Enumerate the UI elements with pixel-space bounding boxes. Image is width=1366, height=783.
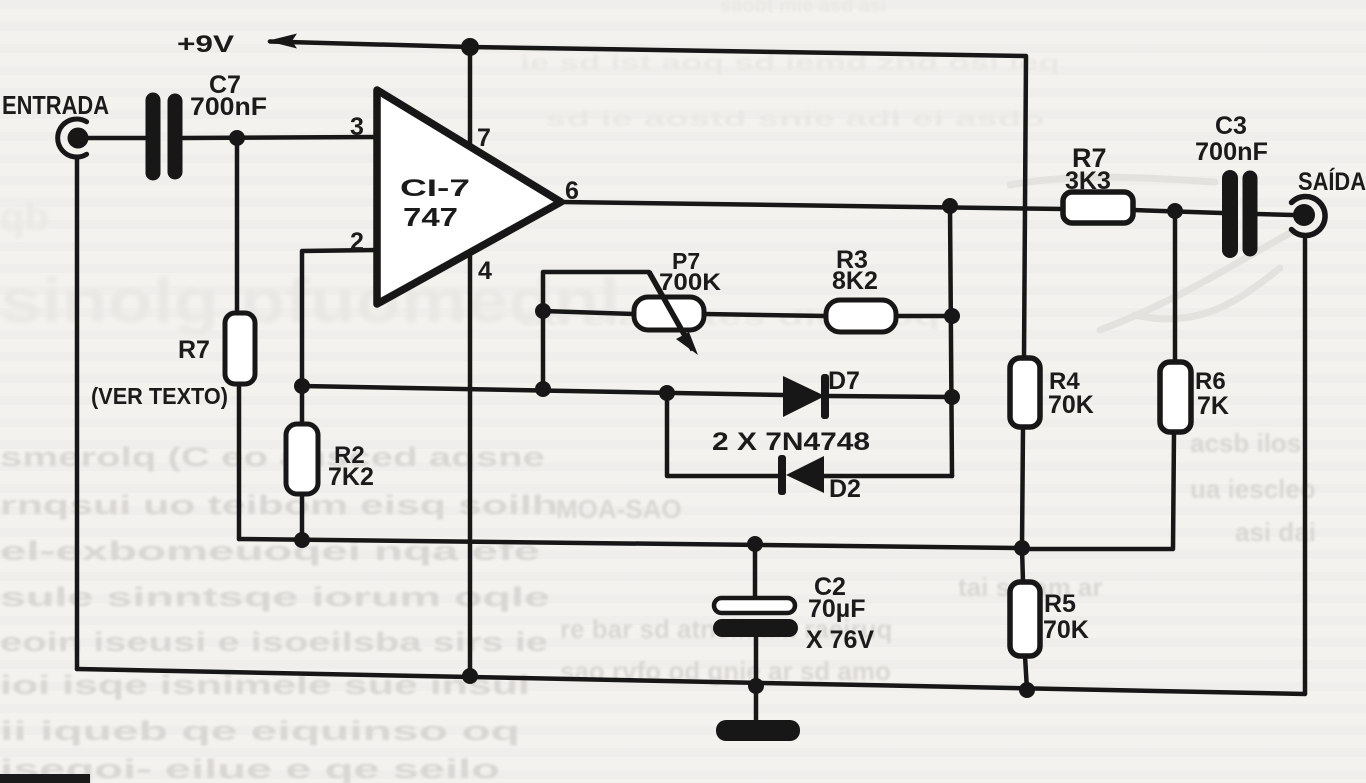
label R6 [1195,368,1226,395]
svg-text:smerolq (C eo ausced aqsne: smerolq (C eo ausced aqsne [0,442,545,472]
wire R1 top lead [235,138,240,313]
wire R5 bottom lead [1025,656,1027,690]
node: diode branch left junction [659,385,675,401]
ground symbol [716,720,800,741]
wire P1 left lead [543,311,634,314]
capacitor C2 top plate [714,598,795,613]
wire mid-rail node run [239,539,1022,548]
potentiometer P1 body [634,272,704,350]
svg-text:ii iqueb qe eiquinso oq: ii iqueb qe eiquinso oq [0,716,520,746]
node: pin7 rail junction [461,38,479,56]
resistor R5 body [1010,582,1040,656]
wire P1 to R3 [704,314,826,316]
svg-text:ua iescleo: ua iescleo [1190,474,1316,504]
svg-text:+9V: +9V [177,31,234,58]
label R4 value 10K [1048,391,1094,419]
label C3 value 100nF [1195,138,1268,166]
connector ENTRADA jack [58,119,89,157]
circuit artwork [77,42,1305,723]
node: C1/R1 junction [229,130,245,146]
node: P1 leg on feedback wire [535,381,551,397]
wire P1 left vertical [543,272,649,389]
label P1 value 100K [659,269,722,296]
wire R4 bottom lead [1022,427,1023,548]
svg-text:2: 2 [350,228,364,256]
label R1 [178,336,210,364]
svg-text:C3: C3 [1215,112,1247,140]
svg-text:700K: 700K [659,269,722,296]
resistor R1 body [225,313,255,384]
svg-text:70K: 70K [1043,616,1089,644]
label 747 [403,202,458,232]
svg-text:3K3: 3K3 [1065,167,1111,195]
svg-text:acsb ilos: acsb ilos [1190,428,1301,458]
wire R5 top lead [1022,548,1023,582]
wire R2 bottom lead [300,494,305,540]
wire ENTRADA down left side [75,158,80,669]
node: R4/R5/R6 mid-rail junction [1014,540,1030,556]
label (VER TEXTO) [91,383,228,409]
wire R3 right lead [896,314,952,319]
svg-text:2 X 7N4748: 2 X 7N4748 [712,428,870,456]
svg-text:700nF: 700nF [1195,138,1268,166]
label pin 4 [478,257,492,285]
black bar bottom-left corner (adjacent figure edge) [0,774,90,783]
wire R6 bottom lead to mid-rail [1022,432,1174,549]
node: R3 right junction [944,308,960,324]
label pin 7 [477,124,491,152]
node: R5 ground junction [1019,682,1035,698]
label C2 [814,573,846,601]
svg-text:CI-7: CI-7 [400,175,470,202]
svg-text:sd ie aostd snie adl ei asdo: sd ie aostd snie adl ei asdo [545,108,1045,131]
label D2 [829,475,861,503]
node: R7/C3/R6 junction [1167,203,1183,219]
label C1 [209,71,241,99]
node: C2 ground junction [748,678,764,694]
wire D2 right lead [824,474,952,479]
label pin 2 [350,228,364,256]
capacitor C1 plates [153,100,175,173]
wire C1 to pin3 [183,137,377,138]
node: output junction on pin6 wire [942,198,958,214]
label ENTRADA [2,90,109,120]
wire feedback run to D1 anode [302,386,783,395]
resistor R3 body [826,300,896,332]
svg-text:700nF: 700nF [190,93,267,121]
diode D2 [778,455,824,495]
label +9V [177,31,234,58]
potentiometer P1 arrow head [676,332,698,355]
label pin 3 [350,113,364,141]
capacitor C2 bottom plate [713,619,798,637]
label C3 [1215,112,1247,140]
wire D2 left lead up to feedback [667,393,781,476]
wire pin2 to feedback node [302,250,377,386]
svg-text:MOA-SAO: MOA-SAO [556,494,682,524]
wire R6 top lead [1173,211,1178,362]
label C2 value 10uF [808,595,865,623]
svg-text:SAÍDA: SAÍDA [1298,167,1366,196]
svg-text:70K: 70K [1048,391,1094,419]
node: C2 top mid-rail junction [747,536,763,552]
svg-text:ENTRADA: ENTRADA [2,90,109,120]
svg-text:4: 4 [478,257,492,285]
svg-text:D7: D7 [828,367,860,395]
svg-text:6: 6 [565,177,579,205]
label R3 value 8K2 [832,267,878,295]
diode D1 [783,374,829,419]
label R3 [836,246,868,274]
wire pin7 to rail [468,47,473,150]
svg-text:7K: 7K [1197,392,1229,420]
wire R7 to C3 [1133,210,1222,213]
svg-text:qb: qb [0,195,49,239]
node: pin2/R2 feedback junction [294,378,310,394]
svg-text:(VER TEXTO): (VER TEXTO) [91,383,228,409]
node: D1 cathode junction [944,389,960,405]
ghost bleed-through text (decorative) [0,195,620,336]
wire pin6 output to R7 [561,202,1064,209]
node: R2 bottom mid-rail junction [294,532,310,548]
wire C2 bottom lead to ground symbol [754,637,759,722]
label CI-1 [400,175,470,202]
wire R1 bottom lead to mid-rail [237,384,242,539]
wire pin4 down to ground [468,256,473,676]
label R4 [1049,368,1080,395]
svg-text:R5: R5 [1044,590,1076,618]
label R2 [334,442,365,469]
label 2 X 1N4148 [712,428,870,456]
label P1 [672,248,700,274]
svg-text:X 76V: X 76V [806,626,874,654]
connector SAIDA jack [1292,196,1326,235]
svg-text:8K2: 8K2 [832,267,878,295]
svg-text:D2: D2 [829,475,861,503]
label SAIDA [1298,167,1366,196]
wire input: jack to C1 [88,136,145,141]
label R7 [1072,143,1107,173]
svg-text:3: 3 [350,113,364,141]
wire C3 to SAIDA jack [1257,214,1293,215]
svg-text:saobt mie asd asi: saobt mie asd asi [720,0,887,17]
capacitor C3 plates [1230,178,1250,250]
svg-text:rnqsui uo teibom eisq soil: rnqsui uo teibom eisq soilh [0,490,558,520]
label pin 6 [565,177,579,205]
node: pin4 ground junction [462,668,478,684]
resistor R4 body [1010,358,1040,427]
label C2 voltage X 16V [806,626,874,654]
svg-text:eoin iseusi e isoeilsba si: eoin iseusi e isoeilsba sirs ie [0,627,548,657]
svg-text:R6: R6 [1195,368,1226,395]
label R6 value 1K [1197,392,1229,420]
svg-text:747: 747 [403,202,458,232]
label R5 value 10K [1043,616,1089,644]
wire C2 top lead [753,544,758,598]
svg-text:sule sinntsqe iorum oqle: sule sinntsqe iorum oqle [0,582,550,612]
wire D1 cathode to node [829,396,952,397]
label D1 [828,367,860,395]
svg-text:7: 7 [477,124,491,152]
power arrow +9V head [267,34,297,49]
node: P1 left terminal [535,303,551,319]
svg-text:70µF: 70µF [808,595,865,623]
wire output node vertical [950,206,952,476]
resistor R6 body [1160,362,1191,432]
op-amp U1 CI-1 747 triangle [377,90,561,304]
label R7 value 3K3 [1065,167,1111,195]
resistor R2 body [286,424,318,494]
label R2 value 1K2 [328,463,374,491]
wire +9V rail and right descent to R4 [270,42,1026,359]
label C1 value 100nF [190,93,267,121]
wire ground bottom run and right side up to SAIDA [77,238,1305,694]
wire R2 top lead [300,386,305,424]
resistor R7 body [1063,192,1133,223]
label R5 [1044,590,1076,618]
svg-text:7K2: 7K2 [328,463,374,491]
svg-text:R7: R7 [178,336,210,364]
